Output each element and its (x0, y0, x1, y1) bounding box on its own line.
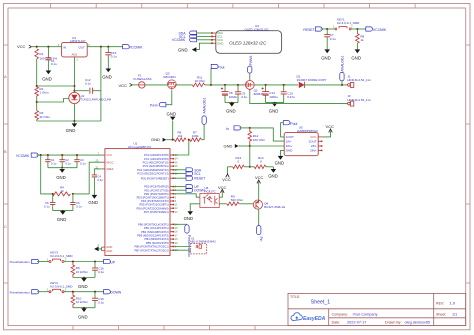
R10 value label 10 kOhm (76, 296, 89, 304)
svg-text:A: A (4, 74, 7, 79)
U1 pin 13 PD7 (144, 210, 178, 214)
svg-text:K2-3.6-6.1_SMD: K2-3.6-6.1_SMD (50, 254, 73, 258)
net label Pressthebutton (UP key) (10, 259, 39, 264)
wire VCC to F1 (132, 84, 138, 86)
wire Q3 to R11 (176, 84, 192, 86)
net label SCL (MCU) (173, 172, 201, 177)
svg-text:IRF240N: IRF240N (164, 75, 176, 79)
svg-text:LM358IPWRG3: LM358IPWRG3 (297, 129, 318, 133)
svg-text:VCCMIK: VCCMIK (373, 28, 387, 32)
svg-text:PC6 (PCINT14RESET): PC6 (PCINT14RESET) (141, 176, 169, 180)
ground flag above R6 (inverted) (167, 111, 177, 139)
svg-text:1IN+: 1IN+ (286, 144, 293, 148)
wire KEY1 to VCCMIK (351, 28, 366, 30)
svg-text:GND: GND (286, 149, 294, 153)
svg-text:Company:: Company: (332, 312, 348, 316)
junction ADJ / C12 (73, 90, 75, 92)
R11 value label 10 Ohm (195, 76, 206, 84)
capacitor C4 (92, 175, 97, 195)
svg-text:GND: GND (268, 174, 278, 179)
svg-text:K2-3.6-6.1_SMD: K2-3.6-6.1_SMD (50, 284, 73, 288)
wire RESET to KEY1 (321, 28, 335, 30)
resistor R7 (190, 138, 202, 142)
shunt reference U2 TL431 (69, 92, 80, 103)
net label VCCMIK (regulator output) (123, 45, 144, 50)
U1 pin 23 PC0 (144, 153, 178, 157)
svg-text:C: C (4, 224, 7, 229)
wire C12 to OUT branch (93, 90, 101, 92)
U1 pin 9 PB6 (134, 245, 176, 249)
ground under KEY3 RC (78, 277, 88, 289)
junction C9 (237, 84, 239, 86)
wire up to Pout flag (210, 69, 212, 85)
svg-text:PD2 (PCINT18INT0): PD2 (PCINT18INT0) (144, 192, 169, 196)
wire PB6 to crystal (173, 246, 190, 248)
svg-text:VCC: VCC (255, 175, 264, 180)
svg-text:PD3 (PCINT19OC2BINT1): PD3 (PCINT19OC2BINT1) (137, 196, 169, 200)
wire KEY3 to UP label (64, 261, 104, 263)
wire KEY2 to DOWN label (64, 291, 104, 293)
svg-text:PC5 (ADC5SCLPCINT13): PC5 (ADC5SCLPCINT13) (137, 172, 168, 176)
svg-text:ANALOG1: ANALOG1 (203, 97, 207, 113)
U4 designator label (70, 36, 85, 43)
resistor R11 (193, 83, 205, 87)
ground under R8 (351, 49, 361, 60)
junction R4 left / C6 (52, 193, 54, 195)
D2 designator label 1N4007 DIODE COPY (297, 74, 327, 82)
C5 value label (80, 158, 86, 165)
junction C14 (265, 84, 267, 86)
junction OUT rail at C12 branch (100, 46, 102, 48)
diode D2 1N4007 (299, 82, 304, 88)
svg-text:2022-07-17: 2022-07-17 (347, 320, 366, 324)
ground under R4 caps (57, 210, 67, 222)
wire ADJ to C12 (74, 90, 89, 92)
svg-text:500 Ohm: 500 Ohm (231, 198, 244, 202)
svg-text:LM317LILP: LM317LILP (70, 39, 85, 43)
svg-text:VCC: VCC (310, 135, 317, 139)
junction R4 right / C13 (72, 193, 74, 195)
svg-text:0.1u: 0.1u (44, 204, 50, 208)
U1 pin 10 PB7 (134, 248, 178, 252)
wire F1 to Q3 (145, 84, 167, 86)
C6 value label (44, 201, 50, 208)
svg-text:PC4 (ADC4SDAPCINT12): PC4 (ADC4SDAPCINT12) (137, 168, 169, 172)
wire C6 C13 ground bus (53, 210, 73, 212)
svg-text:PB2 (SS0C1BPCINT2): PB2 (SS0C1BPCINT2) (141, 230, 169, 234)
KEY1 designator label (337, 17, 360, 25)
wire TL431 anode down (73, 104, 75, 121)
svg-text:PD6 (PCINT22OC0AAIN0): PD6 (PCINT22OC0AAIN0) (136, 206, 168, 210)
power flag VCC at R13 left (222, 167, 232, 182)
svg-text:AREF: AREF (106, 167, 114, 171)
U1 left pin GND 8 (98, 244, 113, 250)
U1 pin 24 PC1 (144, 157, 178, 161)
C15 value label (111, 51, 117, 58)
svg-text:PD0 (PCINT16RXD): PD0 (PCINT16RXD) (144, 185, 169, 189)
svg-text:10 Ohm: 10 Ohm (195, 79, 206, 83)
wire R6 C16 ground bus (73, 277, 95, 279)
wire R12 bottom to R13/R14 tap (249, 146, 251, 167)
junction R2/R3 to TL431 ref (36, 101, 38, 103)
svg-text:GND: GND (224, 144, 233, 149)
U1 left pin GND 22 (96, 247, 113, 253)
pushbutton KEY2 K2-3.6-6.1_SMD (49, 289, 64, 292)
capacitor C6 (50, 194, 55, 211)
ground under C14/C10 (269, 102, 279, 114)
net port ANALOG1 (vertical, near J1) (340, 55, 345, 84)
svg-text:0.47u: 0.47u (287, 95, 295, 99)
net port Pressthebutton (PB0, vertical) (173, 224, 191, 257)
U1 pin 19 PB5 (146, 241, 178, 245)
svg-text:Date:: Date: (332, 320, 341, 324)
ground under cap bank (56, 169, 66, 180)
wire VCC to LM317 IN (31, 46, 61, 48)
resistor R3 (35, 111, 39, 120)
svg-text:IN: IN (63, 45, 66, 49)
svg-text:PB0 (PCINT0CLKOICP1): PB0 (PCINT0CLKOICP1) (138, 222, 169, 226)
svg-text:GND: GND (351, 55, 361, 60)
U1 pin 12 PD6 (136, 206, 178, 210)
capacitor C3 (60, 155, 65, 168)
net label SCL (OLED) (179, 34, 212, 38)
net label Pout (op-amp output) (281, 121, 298, 137)
R4 designator label 1k (60, 186, 64, 193)
svg-text:ADJ: ADJ (72, 53, 78, 57)
junction at R4 drop (40, 154, 42, 156)
U6 designator label PC817C (205, 186, 217, 193)
junction C17 tap (94, 291, 96, 293)
wire to KEY3 (37, 261, 49, 263)
svg-text:1k: 1k (360, 38, 364, 42)
junction at R1 top (36, 46, 38, 48)
svg-text:PD5 (PCINT21OC0BT1): PD5 (PCINT21OC0BT1) (139, 203, 168, 207)
wire Q3 gate down to flag (166, 91, 172, 105)
resistor R6 (pull-down) (71, 262, 75, 278)
resistor R9 (227, 202, 239, 206)
KEY2 designator label (50, 281, 73, 289)
svg-text:Pout: Pout (218, 66, 225, 70)
Q4 designator label BC327-25ZL1G (264, 202, 286, 210)
wire PB7 to crystal (173, 249, 190, 251)
wire divider tap to TL431 ref (37, 99, 69, 103)
wire R11 to rail junctions (205, 84, 244, 86)
wire Q4 collector down to Pin port (258, 209, 260, 226)
U1 pin 1 PC6 (141, 176, 177, 180)
ground flag left of R12 (sideways) (224, 144, 250, 149)
wire In node to op-amp 1IN- (250, 128, 284, 141)
svg-text:10 kOhm: 10 kOhm (76, 270, 89, 274)
junction ANALOG1 tap (341, 84, 343, 86)
wire AVCC to R4 right (73, 162, 102, 194)
junction C7 tap (326, 28, 328, 30)
resistor R2 (35, 86, 39, 97)
J1 designator label (347, 74, 371, 82)
svg-text:UP: UP (110, 260, 115, 264)
net label VCCMIK (MCU supply) (16, 153, 38, 158)
svg-text:PB6 (PCINT6XTAL1TOSC1): PB6 (PCINT6XTAL1TOSC1) (134, 245, 168, 249)
capacitor C16 (92, 262, 98, 278)
svg-text:PB1 (OC1APCINT1): PB1 (OC1APCINT1) (144, 226, 169, 230)
ground under TL431 (66, 121, 77, 133)
svg-text:VCCMIK: VCCMIK (16, 154, 30, 158)
fuse F1 FUSEGLASS (139, 82, 145, 88)
svg-text:VCC: VCC (106, 153, 112, 157)
svg-text:10 kOhm: 10 kOhm (76, 300, 89, 304)
ground under C1 (42, 71, 52, 82)
C2 value label (51, 158, 57, 165)
svg-text:RESET: RESET (303, 28, 314, 32)
svg-text:0.1u: 0.1u (111, 54, 117, 58)
svg-text:0.1u: 0.1u (65, 161, 71, 165)
op-amp U5 LM358 body (284, 133, 318, 156)
svg-text:GND: GND (269, 109, 279, 114)
svg-text:2IN-: 2IN- (311, 144, 317, 148)
wire R10 C17 ground bus (73, 307, 95, 309)
resistor R12 (248, 128, 252, 146)
capacitor C8 electrolytic (221, 85, 229, 103)
junction C2 (47, 154, 49, 156)
R8 value label 1k (360, 35, 364, 43)
svg-text:GND: GND (78, 284, 88, 289)
junction R13/R14 (249, 166, 251, 168)
ground under C4 (88, 195, 98, 205)
capacitor C12 (90, 88, 93, 94)
svg-text:Pressthebutton: Pressthebutton (10, 290, 31, 294)
svg-text:GND: GND (321, 55, 331, 60)
svg-text:GND: GND (102, 74, 112, 79)
optocoupler U6 PC817C body (200, 193, 219, 207)
svg-text:PC2 (ADC2PCINT10): PC2 (ADC2PCINT10) (143, 161, 169, 165)
svg-text:1N4007 DIODE COPY: 1N4007 DIODE COPY (297, 78, 327, 82)
junction at C1 top (47, 46, 49, 48)
svg-text:R1: R1 (40, 52, 44, 56)
power flag VCC at optocoupler (218, 185, 227, 197)
C17 value label (98, 297, 104, 305)
ground under KEY2 RC (78, 307, 88, 320)
net label VCCMIK (key pull-up) (366, 27, 387, 32)
U3 pin SCL (211, 35, 223, 39)
resistor R4 (52, 192, 70, 196)
U1 pin 4 PD2 (144, 192, 177, 196)
junction C10 (283, 84, 285, 86)
resistor R14 (254, 165, 266, 169)
svg-text:0.1u: 0.1u (51, 62, 57, 66)
wire In to R12 top (239, 127, 249, 129)
svg-text:GND: GND (217, 41, 223, 45)
C14 value label 1000u (269, 91, 278, 99)
net port Pin (vertical, Q4 output) (257, 226, 263, 242)
U1 pin 11 PD5 (139, 203, 178, 207)
svg-text:GND: GND (226, 109, 236, 114)
R13 value label 0 (236, 156, 242, 163)
junction Pout branch (210, 84, 212, 86)
svg-text:RESET: RESET (194, 177, 205, 181)
svg-text:GND: GND (42, 77, 52, 82)
R1 value label 100 Ohm 5% (40, 52, 58, 61)
U1 pin 3 PD1 (144, 188, 176, 192)
capacitor C1 (45, 47, 51, 71)
junction C3 (61, 154, 63, 156)
power flag VCC at Q4 emitter (255, 175, 264, 200)
U3 designator label (245, 24, 270, 31)
svg-text:EasyEDA: EasyEDA (303, 316, 326, 322)
net label SDA (OLED) (179, 31, 212, 35)
svg-text:2k Ohm: 2k Ohm (40, 115, 51, 119)
wire R9 to Q4 base (239, 203, 253, 205)
svg-text:TL431CLPMTL431CLPM: TL431CLPMTL431CLPM (81, 97, 112, 101)
svg-text:oleg.denisov65: oleg.denisov65 (405, 320, 431, 324)
svg-text:0.1u: 0.1u (98, 300, 104, 304)
frame zone ticks right edge (466, 45, 470, 283)
junction R6p tap (72, 260, 74, 262)
F1 designator label (134, 74, 152, 82)
svg-text:ABL-6.366MHZ-B4U: ABL-6.366MHZ-B4U (190, 240, 216, 244)
junctions on bottom rail (73, 120, 75, 122)
module U3 OLED 128x32 I2C body (216, 31, 282, 54)
svg-text:0.1u: 0.1u (98, 270, 104, 274)
U1 left pin AVCC 20 (96, 159, 114, 165)
svg-text:GND: GND (151, 137, 160, 142)
svg-text:PB3 (MOSIOC2APCINT3): PB3 (MOSIOC2APCINT3) (137, 234, 168, 238)
wire C8 C9 ground bus (225, 102, 238, 104)
wire bottom rail of regulator loop (37, 120, 101, 122)
net label SDA (MCU) (173, 168, 202, 173)
capacitor C9 (235, 85, 241, 103)
U1 pin 27 PC4 (137, 168, 178, 172)
svg-text:GND: GND (88, 200, 98, 205)
svg-text:GND: GND (57, 217, 67, 222)
svg-text:Pwm: Pwm (150, 104, 158, 108)
U1 pin 28 PC5 (137, 172, 178, 176)
wire LM317 OUT rail (87, 46, 122, 48)
transistor Q4 BC327 (PNP) (253, 200, 262, 209)
frame row letters (4, 74, 7, 229)
wire R1 bottom to R2 (36, 59, 38, 86)
svg-text:GND: GND (184, 216, 194, 221)
U1 pin 15 PB1 (144, 226, 178, 230)
net label UP (MCU) (173, 185, 199, 190)
KEY3 designator label (50, 251, 73, 259)
svg-text:1 Ohm: 1 Ohm (40, 90, 50, 94)
R6 value label 10 kOhm (76, 266, 89, 274)
frame zone ticks top edge (51, 4, 416, 9)
ground under R14 right (266, 167, 278, 179)
capacitor C17 (92, 292, 98, 308)
net port VCC (input, top-left) (17, 44, 31, 49)
wire AREF to C4 (94, 169, 101, 175)
net port PWM1 (vertical) (248, 55, 253, 78)
U5 pin names left (286, 135, 294, 153)
wire R7 to ANALOG1 port (202, 124, 205, 139)
svg-text:1/1: 1/1 (452, 312, 457, 316)
power flag VCC at U5 (321, 124, 334, 137)
svg-text:1.0: 1.0 (450, 300, 456, 305)
wire cap bank ground bus (48, 167, 77, 169)
svg-text:1000u: 1000u (269, 95, 278, 99)
svg-text:0.1u: 0.1u (85, 82, 91, 86)
capacitor C7 (324, 29, 330, 49)
svg-text:PC817C: PC817C (205, 190, 217, 194)
title block border (288, 293, 466, 325)
svg-text:0.1u: 0.1u (241, 95, 247, 99)
U1 pin 5 PD3 (137, 196, 177, 200)
resistor R10 (pull-down) (71, 292, 75, 308)
junction R6/R7 tap (188, 139, 190, 141)
capacitor C13 (70, 194, 75, 211)
C9 value label 0.1u (241, 91, 247, 99)
wire VCCMIK down to R4 (41, 155, 52, 194)
wire OUT branch vertical (100, 47, 102, 121)
svg-text:AVCC: AVCC (106, 160, 113, 164)
svg-text:Drawn By:: Drawn By: (385, 320, 402, 324)
R2 value label 1 Ohm (40, 87, 50, 95)
U1 body (105, 149, 170, 256)
net port ANALOG1 (vertical, near R7) (202, 97, 207, 124)
resistor R8 (356, 29, 360, 49)
svg-text:Sheet_1: Sheet_1 (311, 299, 330, 305)
svg-text:100k: 100k (192, 134, 199, 138)
capacitor C2 (45, 155, 50, 168)
net port VCC (fuse input) (119, 83, 133, 88)
transistor Q2 IRF840 (in rail) (244, 79, 254, 92)
svg-text:GND: GND (178, 47, 188, 52)
svg-text:VCC: VCC (326, 124, 335, 129)
Q2 designator label IRF840 (254, 88, 264, 95)
net label RESET (MCU) (173, 176, 205, 181)
wire C14 C10 ground bus (266, 102, 284, 104)
ground under C8/C9 (226, 102, 236, 114)
crystal X1 ABL-6.366MHZ-B4U (191, 244, 207, 254)
svg-text:GND: GND (167, 111, 177, 116)
junction R8 tap (356, 28, 358, 30)
svg-text:Pin: Pin (259, 237, 263, 242)
U5 right pin stubs (318, 137, 321, 151)
junction OUT rail at C15 (107, 46, 109, 48)
C8 value label 1000u (229, 91, 238, 99)
junction C8 (224, 84, 226, 86)
svg-text:GND: GND (78, 314, 88, 319)
R12 value label 100 Ohm (253, 134, 266, 142)
R7 value label 100k (192, 131, 199, 138)
svg-text:Your Company: Your Company (353, 312, 378, 316)
J3 designator label (347, 94, 371, 102)
pushbutton KEY3 K2-3.6-6.1_SMD (49, 259, 64, 262)
svg-text:OLED 128x32 I2C: OLED 128x32 I2C (229, 40, 267, 45)
svg-text:B: B (4, 149, 7, 154)
frame zone ticks left edge (4, 45, 9, 283)
R6 value label 10k (178, 131, 183, 138)
ground at MCU (sideways) (94, 247, 98, 252)
svg-text:FUSEGLASS: FUSEGLASS (134, 77, 152, 81)
net label VCCMIK (OLED) (172, 38, 212, 42)
net label DOWN (key) (104, 290, 122, 295)
U1 pin 14 PB0 (138, 222, 178, 226)
C4 value label (97, 175, 103, 182)
frame zone ticks bottom edge (73, 326, 255, 330)
svg-text:PWM1: PWM1 (249, 55, 253, 65)
capacitor C15 (105, 47, 111, 69)
net label Pressthebutton (DOWN key) (10, 290, 39, 295)
transistor Q3 IRF240N (P-MOSFET in rail) (167, 80, 176, 91)
svg-text:BC327-25ZL1G: BC327-25ZL1G (264, 205, 286, 209)
net label RESET (303, 27, 322, 32)
svg-text:PC3 (ADC3PCINT11): PC3 (ADC3PCINT11) (143, 164, 169, 168)
ground at U5 GND pin (275, 150, 285, 165)
ground at OLED (sideways) (178, 47, 196, 52)
svg-text:Sheet:: Sheet: (436, 312, 446, 316)
regulator U4 LM317LILP body (62, 42, 88, 57)
